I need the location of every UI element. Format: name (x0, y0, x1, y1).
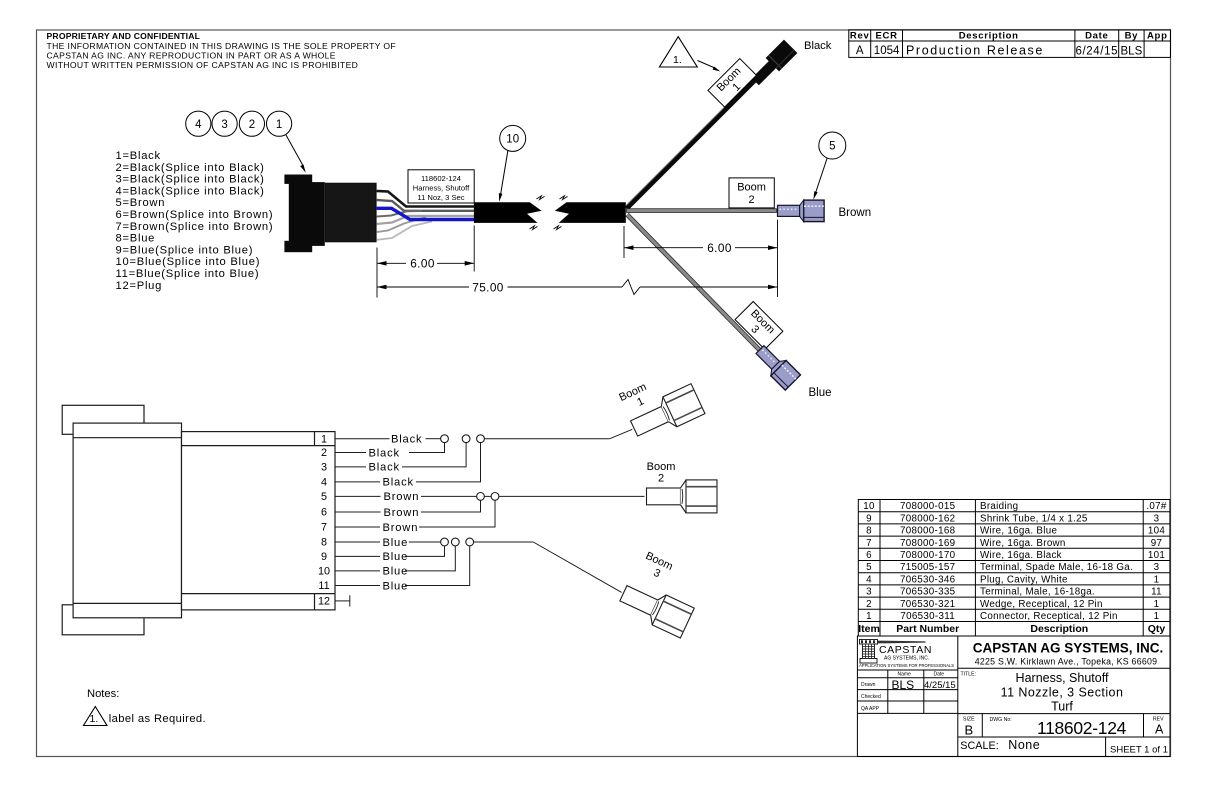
svg-text:11 Noz, 3 Sec: 11 Noz, 3 Sec (417, 193, 464, 202)
svg-text:Blue: Blue (809, 387, 832, 399)
svg-text:7: 7 (866, 538, 872, 549)
svg-text:7=Brown(Splice into Brown): 7=Brown(Splice into Brown) (116, 221, 274, 233)
svg-text:10=Blue(Splice into Blue): 10=Blue(Splice into Blue) (116, 256, 261, 268)
svg-text:None: None (1008, 738, 1040, 752)
leader from balloon 10 to braid (499, 151, 508, 202)
svg-text:3: 3 (1154, 513, 1160, 524)
svg-text:SHEET 1 of 1: SHEET 1 of 1 (1110, 744, 1168, 755)
svg-text:5=Brown: 5=Brown (116, 197, 166, 209)
svg-text:118602-124: 118602-124 (1037, 718, 1127, 738)
svg-text:11 Nozzle, 3 Section: 11 Nozzle, 3 Section (1001, 686, 1124, 700)
svg-text:Item: Item (858, 623, 880, 635)
svg-text:11=Blue(Splice into Blue): 11=Blue(Splice into Blue) (116, 268, 260, 280)
svg-text:1.: 1. (673, 54, 682, 66)
svg-text:1: 1 (1154, 599, 1160, 610)
boom 3 tag box (rotated) (735, 301, 783, 349)
svg-text:Brown: Brown (384, 507, 420, 519)
svg-text:Brown: Brown (384, 491, 420, 503)
svg-text:706530-311: 706530-311 (900, 611, 955, 622)
svg-text:Checked: Checked (861, 694, 881, 700)
pin 12 plug stub (335, 600, 350, 602)
svg-text:1: 1 (866, 611, 872, 622)
svg-text:CAPSTAN AG INC. ANY REPRODUCTI: CAPSTAN AG INC. ANY REPRODUCTION IN PART… (47, 50, 336, 60)
svg-text:Blue: Blue (383, 551, 409, 563)
boom 2 tag box (729, 178, 774, 208)
svg-text:2: 2 (749, 194, 755, 206)
svg-text:2: 2 (866, 599, 872, 610)
svg-text:8=Blue: 8=Blue (116, 233, 156, 245)
svg-text:3: 3 (221, 119, 227, 131)
svg-text:11: 11 (318, 580, 329, 592)
pin 4 wire (335, 481, 380, 483)
pin 1 wire (335, 438, 390, 440)
svg-text:3: 3 (321, 462, 327, 474)
svg-text:BLS: BLS (1121, 45, 1143, 57)
svg-text:708000-169: 708000-169 (900, 538, 955, 549)
svg-text:4225 S.W. Kirklawn Ave., Topek: 4225 S.W. Kirklawn Ave., Topeka, KS 6660… (975, 657, 1158, 667)
svg-text:706530-335: 706530-335 (900, 587, 956, 598)
balloon 2 (239, 111, 264, 136)
svg-text:2: 2 (249, 119, 255, 131)
svg-text:118602-124: 118602-124 (421, 174, 461, 183)
svg-text:9: 9 (866, 513, 872, 524)
svg-text:1054: 1054 (874, 45, 900, 57)
svg-text:THE INFORMATION CONTAINED IN T: THE INFORMATION CONTAINED IN THIS DRAWIN… (47, 41, 397, 51)
svg-text:Black: Black (369, 447, 400, 459)
balloon 5 (819, 132, 846, 159)
svg-text:4: 4 (195, 119, 202, 131)
svg-text:10: 10 (863, 501, 875, 512)
braid segment 1 (474, 196, 545, 230)
top tab (62, 405, 144, 434)
svg-text:4=Black(Splice into Black): 4=Black(Splice into Black) (116, 185, 265, 197)
svg-text:PROPRIETARY AND CONFIDENTIAL: PROPRIETARY AND CONFIDENTIAL (47, 31, 201, 41)
pin 6 wire (335, 511, 381, 513)
wires between connector and braid (377, 191, 474, 240)
svg-text:11: 11 (1151, 587, 1162, 598)
svg-text:Connector, Receptical, 12 Pin: Connector, Receptical, 12 Pin (980, 611, 1118, 622)
svg-text:5: 5 (866, 562, 872, 573)
wire color labels (369, 434, 423, 593)
svg-text:708000-162: 708000-162 (900, 513, 955, 524)
wire list legend (116, 150, 274, 292)
pin wires and labels (335, 429, 645, 606)
svg-text:Blue: Blue (383, 580, 409, 592)
svg-text:3: 3 (866, 587, 872, 598)
boom 1 black connector (766, 40, 798, 72)
svg-text:104: 104 (1148, 526, 1165, 537)
svg-text:9=Blue(Splice into Blue): 9=Blue(Splice into Blue) (116, 244, 254, 256)
leader from balloon 5 to brown terminal (813, 158, 827, 200)
pin 8 wire (335, 541, 380, 543)
boom 3 wire (gray diagonal) (626, 213, 763, 353)
svg-text:7: 7 (321, 522, 327, 534)
part label box 118602-124 (408, 170, 474, 203)
svg-text:1: 1 (276, 119, 282, 131)
svg-text:Drawn: Drawn (861, 682, 876, 688)
svg-text:BLS: BLS (892, 678, 915, 692)
svg-text:708000-170: 708000-170 (900, 550, 956, 561)
svg-text:CAPSTAN AG SYSTEMS, INC.: CAPSTAN AG SYSTEMS, INC. (973, 641, 1164, 656)
pin 3 wire (335, 466, 366, 468)
note triangle (84, 707, 108, 726)
proprietary notice text block (47, 31, 397, 70)
pin 7 wire (335, 526, 380, 528)
svg-text:4/25/15: 4/25/15 (924, 680, 956, 691)
svg-text:Wire, 16ga. Brown: Wire, 16ga. Brown (980, 538, 1066, 549)
svg-text:12: 12 (318, 596, 330, 608)
svg-text:CAPSTAN: CAPSTAN (879, 644, 932, 656)
svg-text:6.00: 6.00 (707, 241, 732, 255)
svg-text:Terminal, Male, 16-18ga.: Terminal, Male, 16-18ga. (980, 587, 1095, 598)
svg-text:708000-015: 708000-015 (900, 501, 956, 512)
svg-text:706530-321: 706530-321 (900, 599, 955, 610)
svg-text:By: By (1125, 31, 1139, 42)
boom 1 tag box (rotated) (708, 59, 757, 108)
svg-text:Brown: Brown (839, 207, 872, 219)
pin 5 wire (335, 495, 381, 497)
svg-text:5: 5 (321, 491, 327, 503)
svg-text:Black: Black (369, 462, 400, 474)
boom 2 spade (lower) (647, 480, 718, 513)
brown terminal (spade, lavender) (778, 200, 825, 222)
svg-text:9: 9 (321, 551, 327, 563)
svg-text:715005-157: 715005-157 (900, 562, 955, 573)
svg-text:Harness, Shutoff: Harness, Shutoff (413, 184, 470, 193)
svg-text:8: 8 (866, 526, 872, 537)
svg-text:Wire, 16ga. Blue: Wire, 16ga. Blue (980, 526, 1057, 537)
svg-text:6/24/15: 6/24/15 (1076, 45, 1119, 57)
svg-text:2=Black(Splice into Black): 2=Black(Splice into Black) (116, 162, 265, 174)
svg-text:Black: Black (804, 40, 832, 52)
svg-text:1: 1 (1154, 574, 1160, 585)
pin 11 wire (335, 585, 380, 587)
svg-text:708000-168: 708000-168 (900, 526, 956, 537)
connector housing (lower-left) (62, 405, 335, 635)
dimension 6.00 (boom 2) (624, 220, 778, 297)
svg-text:ECR: ECR (876, 31, 898, 42)
leader from balloon 1 to connector (286, 135, 306, 173)
svg-text:label as Required.: label as Required. (109, 713, 206, 725)
boom 1 spade (lower) (627, 384, 705, 444)
svg-text:6: 6 (866, 550, 872, 561)
svg-text:Rev: Rev (850, 31, 870, 42)
svg-text:8: 8 (321, 537, 327, 549)
svg-text:Description: Description (1030, 623, 1088, 635)
svg-text:Blue: Blue (383, 566, 409, 578)
dimension 6.00 (left) (377, 226, 474, 298)
svg-text:Wire, 16ga. Black: Wire, 16ga. Black (980, 550, 1062, 561)
svg-text:DWG No:: DWG No: (990, 717, 1012, 723)
svg-text:Brown: Brown (383, 522, 419, 534)
svg-text:6=Brown(Splice into Brown): 6=Brown(Splice into Brown) (116, 209, 274, 221)
splice circles blue (441, 538, 449, 546)
svg-text:Part Number: Part Number (896, 623, 959, 635)
boom 2 wire (gray horizontal) (627, 209, 777, 213)
braid segment 2 (554, 196, 626, 230)
svg-text:6.00: 6.00 (410, 257, 435, 271)
svg-text:4: 4 (321, 477, 327, 489)
svg-text:Boom: Boom (737, 182, 766, 194)
svg-text:Production Release: Production Release (906, 43, 1044, 57)
balloon 3 (212, 111, 237, 136)
main body (73, 423, 181, 618)
svg-text:12=Plug: 12=Plug (116, 280, 163, 292)
boom 1 black shrink tube (752, 60, 777, 85)
svg-text:QA APP: QA APP (861, 706, 880, 712)
splice circles brown (477, 493, 485, 501)
svg-text:Shrink Tube, 1/4 x 1.25: Shrink Tube, 1/4 x 1.25 (980, 513, 1088, 524)
svg-text:TITLE:: TITLE: (961, 672, 977, 678)
svg-text:.07#: .07# (1146, 501, 1167, 512)
svg-text:2: 2 (658, 473, 664, 485)
svg-text:A: A (856, 45, 864, 57)
svg-text:Name: Name (898, 672, 912, 678)
svg-text:75.00: 75.00 (472, 280, 504, 294)
boom 1 wire (black diagonal) (625, 76, 757, 209)
name/date grid (861, 672, 944, 713)
svg-text:1.: 1. (90, 713, 99, 725)
connector body (top diagram) (284, 175, 376, 253)
svg-text:Blue: Blue (383, 537, 409, 549)
revision table (849, 30, 1171, 58)
svg-text:Black: Black (383, 477, 414, 489)
svg-text:1: 1 (321, 433, 327, 445)
svg-text:Black: Black (391, 434, 422, 446)
note flag triangle 1. (659, 37, 720, 72)
svg-text:3=Black(Splice into Black): 3=Black(Splice into Black) (116, 174, 265, 186)
svg-text:1: 1 (1154, 611, 1160, 622)
pin 2 wire (335, 452, 366, 454)
svg-text:Date: Date (1085, 31, 1108, 42)
svg-text:Braiding: Braiding (980, 501, 1018, 512)
svg-text:Qty: Qty (1148, 623, 1166, 635)
svg-text:101: 101 (1148, 550, 1165, 561)
blue terminal (spade, lavender, rotated) (752, 342, 800, 390)
svg-text:Terminal, Spade Male, 16-18 Ga: Terminal, Spade Male, 16-18 Ga. (980, 562, 1133, 573)
svg-text:5: 5 (829, 141, 835, 153)
svg-text:Harness, Shutoff: Harness, Shutoff (1016, 671, 1109, 685)
svg-text:6: 6 (321, 507, 327, 519)
svg-text:4: 4 (866, 574, 872, 585)
svg-text:REV: REV (1153, 716, 1164, 722)
svg-text:A: A (1155, 723, 1164, 737)
svg-text:AG SYSTEMS, INC.: AG SYSTEMS, INC. (884, 656, 929, 662)
svg-text:Plug, Cavity, White: Plug, Cavity, White (980, 574, 1068, 585)
pin 9 wire (335, 555, 380, 557)
svg-text:SCALE:: SCALE: (960, 740, 998, 752)
splice circles black (441, 435, 499, 546)
svg-text:97: 97 (1151, 538, 1163, 549)
svg-text:Date: Date (934, 672, 945, 678)
svg-text:App: App (1147, 31, 1168, 42)
balloon 4 (186, 111, 211, 136)
svg-text:706530-346: 706530-346 (900, 574, 956, 585)
svg-text:Boom: Boom (647, 461, 676, 473)
svg-text:WITHOUT WRITTEN PERMISSION OF: WITHOUT WRITTEN PERMISSION OF CAPSTAN AG… (47, 60, 359, 70)
svg-text:3: 3 (1154, 562, 1160, 573)
boom 3 spade (lower) (616, 578, 694, 638)
svg-text:Description: Description (959, 31, 1019, 42)
svg-text:Notes:: Notes: (87, 688, 119, 700)
balloon 1 (267, 111, 292, 136)
svg-text:10: 10 (506, 134, 519, 146)
svg-text:B: B (965, 723, 974, 738)
svg-text:Wedge, Receptical, 12 Pin: Wedge, Receptical, 12 Pin (980, 599, 1103, 610)
dimension 75.00 (377, 280, 778, 295)
pin numbers (318, 433, 330, 607)
svg-text:10: 10 (318, 566, 330, 578)
pin housing (182, 432, 336, 610)
bottom tab (62, 605, 144, 635)
svg-text:APPLICATION SYSTEMS FOR PROFES: APPLICATION SYSTEMS FOR PROFESSIONALS (859, 663, 954, 668)
svg-text:2: 2 (321, 447, 327, 459)
balloon 10 (500, 125, 526, 151)
capstan logo (859, 640, 954, 669)
pin 10 wire (335, 570, 380, 572)
svg-text:Turf: Turf (1051, 700, 1073, 714)
svg-text:1=Black: 1=Black (116, 150, 161, 162)
